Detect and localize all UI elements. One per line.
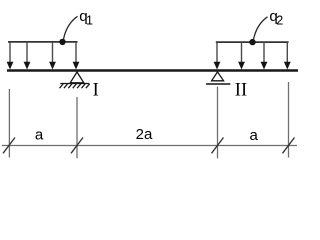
dimension tick 4 <box>283 138 295 154</box>
load q2 arrow 1 <box>214 42 221 69</box>
load q2 arrow 3 <box>261 42 268 69</box>
leader line q2 <box>254 17 268 40</box>
load q1 arrow 2 <box>24 42 31 70</box>
load q1 arrow 3 <box>49 42 56 70</box>
beam <box>7 69 298 72</box>
dimension tick 2 <box>71 138 83 154</box>
leader dot q1 <box>59 39 65 45</box>
svg-text:I: I <box>93 80 99 100</box>
leader dot q2 <box>249 39 255 45</box>
svg-text:a: a <box>250 127 259 144</box>
svg-text:a: a <box>35 127 44 144</box>
svg-text:1: 1 <box>86 14 93 28</box>
support I ground line <box>60 83 89 85</box>
dimension tick 3 <box>212 138 224 154</box>
dimension line <box>2 145 297 147</box>
load q1 arrow 4 <box>73 42 80 70</box>
svg-text:2a: 2a <box>136 126 153 143</box>
support II roller line <box>206 83 230 85</box>
load q2 arrow 2 <box>238 42 245 69</box>
support II triangle <box>212 72 224 81</box>
load q1 arrow 1 <box>7 42 14 70</box>
extension line support I <box>76 97 78 158</box>
leader line q1 <box>64 16 78 39</box>
svg-text:II: II <box>235 80 247 100</box>
extension line support II <box>217 87 219 159</box>
svg-text:2: 2 <box>276 14 283 28</box>
support I triangle <box>70 72 84 83</box>
extension line right end <box>288 82 290 158</box>
load q2 arrow 4 <box>284 42 291 69</box>
support I hatching <box>60 84 90 88</box>
extension line left end <box>8 89 10 158</box>
load line q2 <box>216 41 289 43</box>
dimension tick 1 <box>3 138 15 154</box>
load line q1 <box>8 41 78 43</box>
